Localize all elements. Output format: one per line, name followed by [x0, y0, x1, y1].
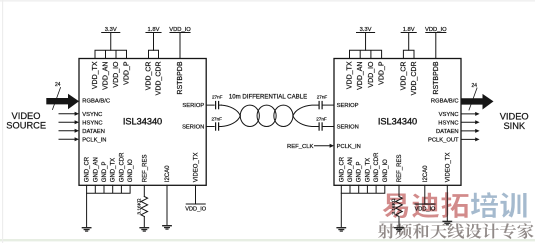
svg-text:VDD_IO: VDD_IO [415, 207, 436, 213]
svg-text:27nF: 27nF [212, 94, 223, 99]
svg-text:27nF: 27nF [317, 94, 328, 99]
svg-text:VSYNC: VSYNC [439, 112, 459, 118]
capacitor C3 27nF [318, 102, 320, 109]
svg-text:VDD_IO: VDD_IO [113, 61, 120, 88]
ground R1 [139, 227, 149, 232]
wire REF_RES stub U2 [398, 185, 400, 196]
node RGBA/B/C input bus thick arrow [46, 94, 79, 110]
resistor R2 3.16K [396, 197, 403, 217]
svg-text:1.8V: 1.8V [148, 27, 160, 33]
svg-text:27nF: 27nF [316, 117, 327, 122]
ground U2 GND group [336, 227, 346, 232]
svg-text:GND_IO: GND_IO [128, 159, 134, 182]
svg-text:GND_CR: GND_CR [339, 156, 345, 182]
wire DATAEN out [461, 130, 477, 132]
svg-text:VDD_AN: VDD_AN [357, 62, 364, 90]
watermark big text PeiXun (blue) [470, 192, 527, 219]
capacitor C2 27nF [215, 123, 217, 130]
svg-text:3.16KΩ: 3.16KΩ [136, 198, 142, 215]
svg-text:VDD_P: VDD_P [124, 61, 131, 85]
svg-text:I2CA0: I2CA0 [423, 165, 429, 182]
wire REF_CLK to U2 PCLK_IN [315, 145, 332, 147]
svg-text:24: 24 [55, 82, 61, 88]
ground I2CA0 U1 [162, 225, 172, 230]
wire DATAEN in [59, 130, 76, 132]
svg-text:VIDEO_TX: VIDEO_TX [445, 153, 451, 183]
U2 top pins VDD_TX VDD_AN VDD_IO VDD_P group [350, 50, 382, 58]
svg-text:VDD_CR: VDD_CR [146, 62, 153, 91]
wire R1 to ground [143, 217, 145, 228]
svg-text:VDD_P: VDD_P [379, 61, 386, 85]
wire 1.8V stem U2 [408, 33, 410, 51]
U2 top pins VDD_CR VDD_CDR group [403, 50, 414, 58]
svg-text:VIDEO: VIDEO [500, 111, 529, 121]
wire I2CA0 U2 down [424, 185, 426, 204]
wire PCLK_OUT out [461, 138, 477, 140]
watermark big text YiDiTuo (pink) [382, 192, 469, 219]
power 1.8V U2 [401, 32, 416, 34]
svg-text:GND_P: GND_P [357, 162, 363, 183]
svg-text:10m DIFFERENTIAL CABLE: 10m DIFFERENTIAL CABLE [229, 93, 307, 100]
svg-text:GND_AN: GND_AN [348, 157, 354, 182]
bus width slash U2 [469, 88, 477, 110]
U1 bottom GND pins group [87, 185, 131, 193]
svg-text:PCLK_IN: PCLK_IN [82, 137, 106, 143]
svg-text:GND_IO: GND_IO [383, 159, 389, 182]
svg-text:24: 24 [472, 83, 478, 89]
svg-text:VSYNC: VSYNC [82, 112, 102, 118]
ground R2 [394, 227, 404, 232]
wire REF_RES stub U1 [143, 185, 145, 196]
svg-text:RSTBPDB: RSTBPDB [177, 61, 184, 94]
node RGBA/B/C output bus thick arrow [461, 94, 494, 110]
svg-text:VDD_CR: VDD_CR [400, 62, 407, 91]
wire VSYNC out [461, 113, 477, 115]
capacitor C1 27nF [215, 102, 217, 109]
svg-text:GND_CR: GND_CR [85, 156, 91, 182]
wire R2 to ground [398, 217, 400, 228]
svg-text:PCLK_IN: PCLK_IN [337, 144, 361, 150]
svg-text:VDD_AN: VDD_AN [103, 62, 110, 90]
svg-text:HSYNC: HSYNC [438, 120, 458, 126]
wire HSYNC in [59, 121, 76, 123]
svg-text:REF_RES: REF_RES [397, 155, 403, 183]
U1 pin RSTBPDB wire [179, 33, 181, 59]
wire HSYNC out [461, 121, 477, 123]
svg-text:GND_TX: GND_TX [111, 158, 117, 182]
watermark underline [380, 221, 532, 223]
svg-text:I2CA0: I2CA0 [165, 165, 171, 182]
svg-text:SINK: SINK [503, 121, 525, 131]
watermark tagline grey serif [378, 223, 534, 239]
svg-text:GND_TX: GND_TX [365, 158, 371, 182]
U1 top pins VDD_TX VDD_AN VDD_IO VDD_P group [95, 50, 127, 58]
cable twisted pair loops [221, 105, 334, 126]
power VDD_IO U2 top [426, 32, 446, 34]
U2 pin RSTBPDB wire [435, 33, 437, 59]
svg-text:SERION: SERION [337, 124, 359, 130]
U2 bottom GND pins group [341, 185, 385, 193]
svg-text:3.3V: 3.3V [105, 27, 117, 33]
svg-text:GND_CDR: GND_CDR [119, 152, 125, 182]
op-amp U1 ISL34340 left chip body [79, 59, 206, 186]
svg-text:SERIOP: SERIOP [337, 103, 359, 109]
wire SERIOP U1 to cable [206, 104, 221, 106]
wire GND stem U1 [86, 193, 88, 227]
svg-text:DATAEN: DATAEN [436, 129, 459, 135]
wire VIDEO_TX U1 down [195, 185, 197, 204]
svg-text:3.16KΩ: 3.16KΩ [391, 198, 397, 215]
wire 1.8V stem U1 [153, 33, 155, 51]
svg-text:VDD_IO: VDD_IO [425, 27, 447, 33]
svg-text:HSYNC: HSYNC [82, 120, 102, 126]
wire I2CA0 U1 to ground [166, 185, 168, 225]
svg-text:SOURCE: SOURCE [6, 120, 46, 130]
svg-text:DATAEN: DATAEN [82, 129, 105, 135]
svg-text:GND_CDR: GND_CDR [374, 152, 380, 182]
op-amp U2 ISL34340 right chip body [334, 59, 461, 186]
bus width slash [53, 88, 61, 110]
power VDD_IO below I2CA0 U2 [415, 203, 435, 205]
svg-text:REF_CLK: REF_CLK [287, 144, 314, 150]
svg-text:ISL34340: ISL34340 [123, 117, 162, 127]
svg-text:GND_AN: GND_AN [93, 157, 99, 182]
wire VIDEO_TX U2 to ground [446, 185, 448, 220]
ground U1 GND group [82, 227, 92, 232]
svg-text:VDD_IO: VDD_IO [169, 27, 191, 33]
ground VIDEO_TX U2 [442, 221, 452, 226]
wire SERION U1 to cable [206, 126, 221, 128]
power VDD_IO below VIDEO_TX U1 [186, 203, 205, 205]
resistor R1 3.16K [141, 197, 148, 217]
wire VSYNC in [59, 113, 76, 115]
svg-text:SERION: SERION [182, 125, 204, 131]
U1 top pins VDD_CR VDD_CDR group [149, 50, 159, 58]
svg-text:VDD_IO: VDD_IO [185, 207, 206, 213]
wire 3.3V stem U2 [365, 33, 367, 51]
svg-text:VDD_TX: VDD_TX [347, 61, 354, 89]
svg-text:VDD_TX: VDD_TX [92, 61, 99, 89]
capacitor C4 27nF [318, 123, 320, 130]
svg-text:3.3V: 3.3V [360, 27, 372, 33]
svg-text:VIDEO_TX: VIDEO_TX [194, 153, 200, 183]
svg-text:RGBA/B/C: RGBA/B/C [82, 98, 110, 104]
power 3.3V U1 [102, 32, 120, 34]
svg-text:RGBA/B/C: RGBA/B/C [431, 98, 459, 104]
wire GND stem U2 [340, 193, 342, 227]
svg-text:GND_P: GND_P [102, 162, 108, 183]
svg-text:VDD_IO: VDD_IO [368, 61, 375, 88]
svg-text:RSTBPDB: RSTBPDB [433, 61, 440, 94]
power 1.8V U1 [146, 32, 161, 34]
wire PCLK_IN in [59, 138, 76, 140]
svg-text:ISL34340: ISL34340 [378, 117, 417, 127]
svg-text:27nF: 27nF [211, 117, 222, 122]
wire 3.3V stem U1 [110, 33, 112, 51]
power 3.3V U2 [357, 32, 375, 34]
svg-text:PCLK_OUT: PCLK_OUT [428, 138, 459, 144]
svg-text:REF_RES: REF_RES [142, 155, 148, 183]
svg-text:1.8V: 1.8V [403, 27, 415, 33]
svg-text:SERIOP: SERIOP [182, 103, 204, 109]
svg-text:VDD_CDR: VDD_CDR [156, 62, 163, 96]
power VDD_IO U1 top [170, 32, 190, 34]
svg-text:VDD_CDR: VDD_CDR [411, 62, 418, 96]
